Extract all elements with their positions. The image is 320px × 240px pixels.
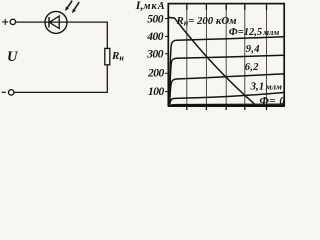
left ticks [165, 19, 168, 92]
wire below resistor [106, 65, 108, 93]
photodiode triangle [49, 16, 59, 28]
svg-text:300: 300 [146, 48, 164, 60]
curve F=9.4 [170, 55, 284, 104]
curve F=0 [170, 104, 284, 105]
light arrow 2 [72, 2, 79, 13]
svg-text:3,1млм: 3,1млм [250, 81, 283, 93]
wire top [15, 21, 107, 23]
terminal circle bottom [9, 90, 14, 95]
photodiode cathode bar [48, 17, 50, 28]
wire bottom [14, 91, 108, 93]
curve F=6.2 [170, 74, 284, 105]
vertical gridline 2 [205, 4, 207, 105]
svg-text:200: 200 [147, 68, 165, 80]
svg-text:100: 100 [148, 86, 165, 98]
plus terminal sign [2, 19, 8, 25]
svg-text:I,мкА: I,мкА [135, 0, 166, 12]
minus terminal sign [2, 91, 6, 93]
svg-text:6,2: 6,2 [245, 62, 259, 73]
top ticks [187, 4, 267, 10]
resistor Rn body [105, 48, 110, 64]
bottom ticks [187, 106, 267, 110]
wire right vertical [106, 22, 108, 49]
svg-text:Ф=12,5млм: Ф=12,5млм [229, 27, 280, 38]
terminal circle top [10, 19, 15, 24]
svg-text:Ф= 0: Ф= 0 [260, 95, 286, 107]
curve F=12.5mlm [169, 37, 283, 104]
load line Rn=200k [169, 17, 256, 105]
photodiode VD circle [45, 11, 67, 33]
bottom border thickening [168, 105, 285, 107]
vertical gridline 1 [186, 4, 188, 105]
vertical gridline 3 [225, 4, 227, 105]
svg-text:400: 400 [146, 31, 164, 43]
plot frame [168, 4, 284, 106]
svg-text:U: U [7, 49, 19, 65]
svg-text:500: 500 [147, 14, 164, 26]
curve F=3.1mlm [170, 93, 284, 105]
vertical gridline 5 [266, 4, 268, 105]
svg-text:9,4: 9,4 [246, 44, 260, 55]
light arrow 1 [65, 1, 72, 11]
vertical gridline 4 [244, 4, 246, 105]
